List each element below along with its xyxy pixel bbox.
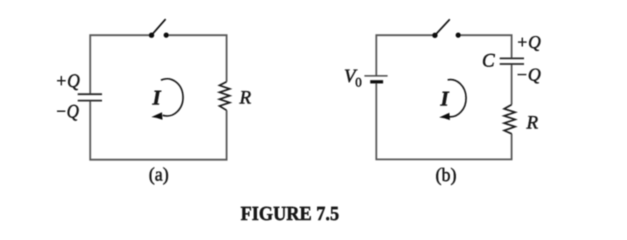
svg-text:(b): (b) bbox=[436, 165, 457, 186]
svg-text:+Q: +Q bbox=[55, 71, 80, 92]
svg-text:I: I bbox=[152, 86, 162, 110]
svg-text:+Q: +Q bbox=[516, 32, 541, 52]
svg-text:C: C bbox=[482, 51, 495, 72]
svg-text:R: R bbox=[239, 87, 252, 108]
svg-text:−Q: −Q bbox=[55, 101, 79, 122]
svg-text:(a): (a) bbox=[149, 165, 169, 186]
svg-text:FIGURE 7.5: FIGURE 7.5 bbox=[241, 203, 340, 225]
svg-text:−Q: −Q bbox=[516, 64, 541, 84]
svg-text:I: I bbox=[440, 87, 450, 111]
svg-text:R: R bbox=[526, 113, 539, 134]
svg-text:0: 0 bbox=[355, 75, 362, 90]
